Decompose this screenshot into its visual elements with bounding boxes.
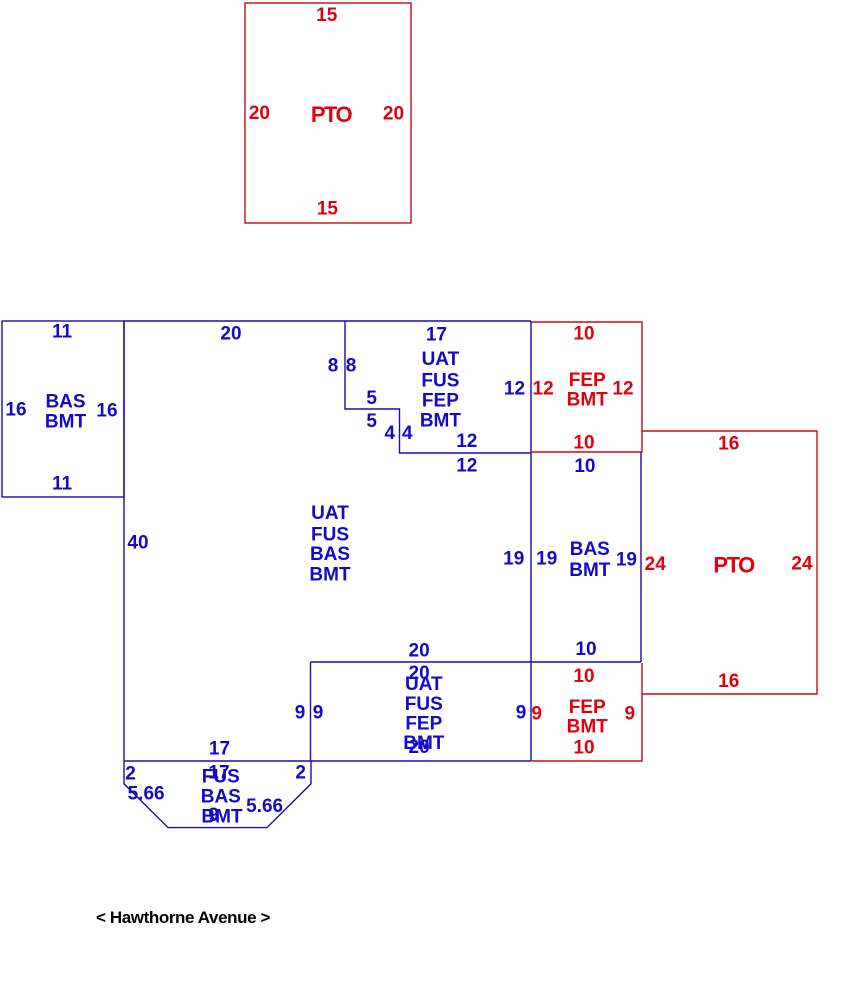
svg-text:16: 16 — [96, 401, 117, 422]
svg-text:BAS: BAS — [45, 392, 85, 413]
svg-text:15: 15 — [316, 5, 338, 26]
svg-text:20: 20 — [383, 104, 404, 125]
svg-text:FEP: FEP — [569, 697, 606, 718]
svg-text:12: 12 — [504, 379, 525, 400]
svg-text:BAS: BAS — [570, 539, 610, 560]
svg-text:16: 16 — [718, 671, 739, 692]
svg-text:12: 12 — [456, 431, 477, 452]
svg-text:9: 9 — [516, 702, 527, 723]
svg-text:40: 40 — [127, 533, 148, 554]
svg-text:9: 9 — [531, 703, 542, 724]
svg-text:FUS: FUS — [421, 371, 459, 392]
svg-text:17: 17 — [426, 325, 447, 346]
svg-text:BMT: BMT — [567, 717, 609, 738]
svg-text:PTO: PTO — [713, 552, 755, 577]
svg-text:4: 4 — [402, 423, 413, 444]
svg-text:BMT: BMT — [309, 565, 351, 586]
svg-text:4: 4 — [385, 423, 396, 444]
svg-text:2: 2 — [295, 763, 306, 784]
svg-text:UAT: UAT — [405, 674, 443, 695]
svg-text:BMT: BMT — [420, 410, 462, 431]
svg-text:16: 16 — [718, 434, 739, 455]
svg-text:10: 10 — [573, 324, 594, 345]
svg-text:24: 24 — [791, 554, 813, 575]
svg-text:FUS: FUS — [202, 767, 240, 788]
svg-text:12: 12 — [456, 455, 477, 476]
svg-text:10: 10 — [573, 666, 594, 687]
svg-text:12: 12 — [533, 379, 554, 400]
svg-text:5.66: 5.66 — [246, 796, 283, 817]
svg-text:5.66: 5.66 — [128, 783, 165, 804]
svg-text:19: 19 — [616, 550, 637, 571]
svg-text:10: 10 — [574, 456, 595, 477]
svg-text:PTO: PTO — [311, 102, 353, 127]
svg-text:FUS: FUS — [405, 694, 443, 715]
svg-text:5: 5 — [366, 411, 377, 432]
svg-text:FUS: FUS — [311, 524, 349, 545]
svg-text:16: 16 — [5, 400, 26, 421]
svg-text:9: 9 — [313, 702, 324, 723]
svg-text:11: 11 — [52, 474, 73, 495]
svg-text:BMT: BMT — [567, 389, 609, 410]
svg-text:FEP: FEP — [422, 391, 459, 412]
svg-text:9: 9 — [625, 703, 636, 724]
svg-text:BMT: BMT — [403, 733, 445, 754]
svg-text:11: 11 — [52, 322, 73, 343]
svg-text:BAS: BAS — [310, 544, 350, 565]
svg-text:12: 12 — [612, 379, 633, 400]
svg-text:FEP: FEP — [569, 370, 606, 391]
svg-text:10: 10 — [573, 738, 594, 759]
svg-text:BMT: BMT — [45, 412, 87, 433]
svg-text:19: 19 — [503, 549, 524, 570]
svg-text:5: 5 — [366, 388, 377, 409]
svg-text:< Hawthorne Avenue >: < Hawthorne Avenue > — [96, 908, 270, 927]
svg-text:2: 2 — [125, 764, 136, 785]
svg-text:8: 8 — [346, 356, 357, 377]
svg-text:24: 24 — [645, 554, 667, 575]
svg-text:9: 9 — [208, 805, 219, 826]
svg-text:BMT: BMT — [569, 560, 611, 581]
svg-text:UAT: UAT — [422, 349, 460, 370]
svg-text:20: 20 — [249, 103, 270, 124]
svg-text:17: 17 — [209, 739, 230, 760]
svg-text:10: 10 — [575, 639, 596, 660]
svg-text:19: 19 — [536, 549, 557, 570]
svg-text:9: 9 — [295, 702, 306, 723]
svg-text:8: 8 — [328, 356, 339, 377]
svg-text:20: 20 — [409, 640, 430, 661]
svg-text:FEP: FEP — [405, 713, 442, 734]
svg-text:15: 15 — [317, 199, 339, 220]
svg-text:10: 10 — [573, 433, 594, 454]
svg-text:20: 20 — [220, 324, 241, 345]
svg-text:BAS: BAS — [201, 786, 241, 807]
svg-text:UAT: UAT — [311, 503, 349, 524]
